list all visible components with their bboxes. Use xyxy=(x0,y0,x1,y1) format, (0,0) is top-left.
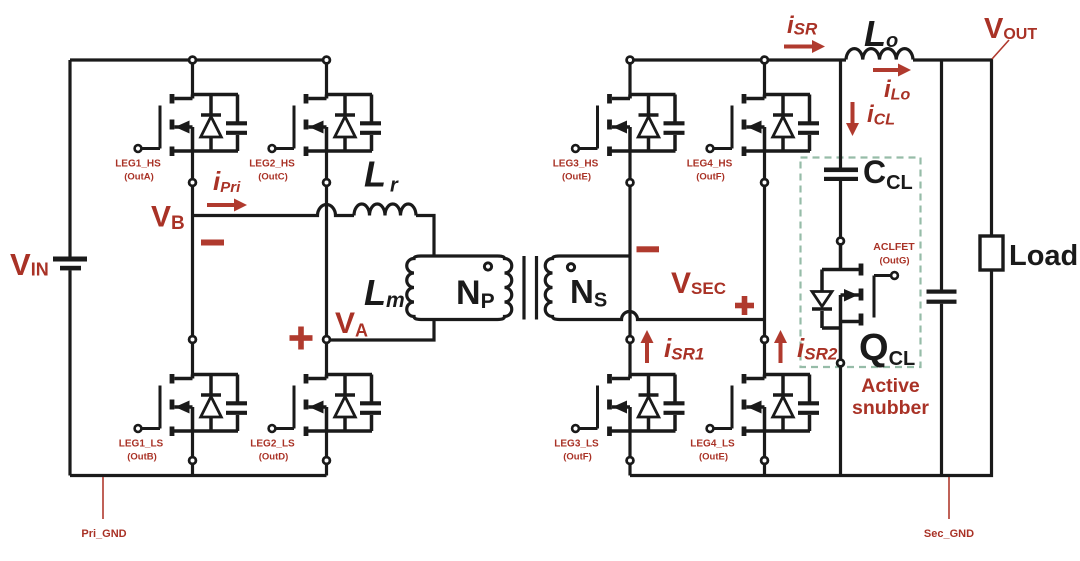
node leg4 top xyxy=(761,57,768,64)
plus sign VSEC xyxy=(735,296,754,315)
transistor QCL (ACLFET) xyxy=(812,241,898,363)
wire: QCL to ground rail xyxy=(839,363,842,476)
inductor Lo xyxy=(846,49,913,60)
transformer secondary winding Ns xyxy=(545,256,764,320)
transistor LEG3_LS (OutF) xyxy=(572,374,684,436)
wire: VB node to Lr (hops over leg2) xyxy=(193,205,355,216)
minus sign VB xyxy=(201,240,224,246)
node leg2 mid xyxy=(323,179,330,186)
svg-text:Lr: Lr xyxy=(364,154,399,197)
wire: left rail upper (Vin to top rail) xyxy=(68,60,71,257)
wire: leg3 vertical xyxy=(628,60,631,476)
current arrow iSR2 xyxy=(774,330,787,363)
active snubber dashed box xyxy=(801,158,921,368)
svg-text:ACLFET: ACLFET xyxy=(873,241,915,253)
svg-text:LEG3_LS: LEG3_LS xyxy=(554,439,599,450)
transistor LEG2_HS (OutC) xyxy=(269,94,381,156)
transistor LEG3_HS (OutE) xyxy=(572,94,684,156)
transistor LEG2_LS (OutD) xyxy=(269,374,381,436)
wire: clamp branch upper xyxy=(839,60,842,168)
capacitor CCL xyxy=(824,168,858,182)
node VB xyxy=(189,179,196,186)
polarity dot Np xyxy=(484,263,491,270)
svg-text:VOUT: VOUT xyxy=(984,13,1037,45)
svg-text:Lo: Lo xyxy=(864,13,898,54)
svg-text:iCL: iCL xyxy=(867,101,895,129)
wire: leg2 vertical xyxy=(325,60,328,476)
wire: primary bottom rail (Pri_GND) xyxy=(70,474,327,477)
plus sign VA xyxy=(290,327,313,350)
current arrow iLo xyxy=(873,64,911,77)
svg-text:(OutC): (OutC) xyxy=(258,172,288,183)
inductor Lr xyxy=(354,204,434,256)
transistor LEG4_LS (OutE) xyxy=(707,374,819,436)
polarity dot Ns xyxy=(567,264,574,271)
svg-text:NS: NS xyxy=(570,273,607,312)
output capacitor xyxy=(927,290,957,304)
svg-text:iPri: iPri xyxy=(213,166,241,196)
node leg2 bottom xyxy=(323,457,330,464)
wire: leg4 vertical xyxy=(763,60,766,476)
svg-text:LEG3_HS: LEG3_HS xyxy=(553,159,599,170)
minus sign VSEC xyxy=(637,246,660,252)
svg-text:LEG4_HS: LEG4_HS xyxy=(687,159,733,170)
current arrow iCL xyxy=(846,102,859,136)
wire: primary top rail xyxy=(70,58,327,61)
node leg1 top xyxy=(189,57,196,64)
svg-text:snubber: snubber xyxy=(852,397,929,419)
wire: Lo to Vout corner xyxy=(913,60,992,236)
node QCL drain xyxy=(837,238,844,245)
wire: secondary top rail xyxy=(630,58,846,61)
svg-text:iSR: iSR xyxy=(787,12,818,39)
svg-text:LEG2_LS: LEG2_LS xyxy=(250,439,295,450)
node QCL source xyxy=(837,360,844,367)
svg-text:(OutG): (OutG) xyxy=(879,256,909,267)
svg-text:VIN: VIN xyxy=(10,247,49,282)
transistor LEG1_LS (OutB) xyxy=(135,374,247,436)
svg-text:(OutE): (OutE) xyxy=(562,172,591,183)
node leg2 top xyxy=(323,57,330,64)
wire: secondary bottom rail (Sec_GND) xyxy=(630,270,992,475)
node SR1 xyxy=(627,336,634,343)
current arrow iSR xyxy=(784,40,825,53)
svg-text:(OutB): (OutB) xyxy=(127,452,157,463)
svg-text:(OutA): (OutA) xyxy=(124,172,154,183)
wire: output capacitor branch xyxy=(940,60,943,476)
Pri_GND lead xyxy=(102,477,104,519)
node leg3 mid xyxy=(627,179,634,186)
transistor LEG4_HS (OutF) xyxy=(707,94,819,156)
node SR2 xyxy=(761,336,768,343)
svg-text:(OutD): (OutD) xyxy=(259,452,289,463)
node leg4 bottom xyxy=(761,457,768,464)
node leg4 mid xyxy=(761,179,768,186)
svg-text:LEG2_HS: LEG2_HS xyxy=(249,159,295,170)
svg-text:Pri_GND: Pri_GND xyxy=(81,528,126,540)
svg-text:(OutF): (OutF) xyxy=(696,172,725,183)
svg-text:(OutE): (OutE) xyxy=(699,452,728,463)
svg-text:VB: VB xyxy=(151,201,185,235)
svg-text:LEG4_LS: LEG4_LS xyxy=(690,439,735,450)
svg-text:(OutF): (OutF) xyxy=(563,452,592,463)
svg-text:VSEC: VSEC xyxy=(671,267,726,300)
svg-text:iLo: iLo xyxy=(884,76,910,104)
svg-text:Active: Active xyxy=(861,375,920,397)
svg-text:NP: NP xyxy=(456,274,495,313)
node leg3 top xyxy=(627,57,634,64)
node leg1 bottom xyxy=(189,457,196,464)
transistor LEG1_HS (OutA) xyxy=(135,94,247,156)
Sec_GND lead xyxy=(948,477,950,519)
svg-text:iSR2: iSR2 xyxy=(797,333,838,364)
svg-text:QCL: QCL xyxy=(859,327,915,370)
resistor Load xyxy=(980,236,1003,270)
transformer primary winding Np / Lm xyxy=(407,256,512,320)
svg-text:LEG1_LS: LEG1_LS xyxy=(119,439,164,450)
wire: leg1 vertical xyxy=(191,60,194,476)
wire: CCL to QCL xyxy=(839,181,842,241)
Vout tick xyxy=(992,40,1009,59)
svg-text:Lm: Lm xyxy=(364,272,405,313)
svg-text:Load: Load xyxy=(1009,240,1078,272)
svg-text:Sec_GND: Sec_GND xyxy=(924,528,974,540)
node leg1 lower xyxy=(189,336,196,343)
svg-text:LEG1_HS: LEG1_HS xyxy=(115,159,161,170)
wire: left rail lower (Vin to ground rail) xyxy=(68,270,71,475)
svg-text:iSR1: iSR1 xyxy=(664,333,704,364)
battery VIN xyxy=(53,257,87,271)
node VA xyxy=(323,336,330,343)
current arrow iSR1 xyxy=(641,330,654,363)
node leg3 bottom xyxy=(627,457,634,464)
current arrow iPri xyxy=(207,199,247,212)
wire: primary winding bottom to VA node xyxy=(327,320,435,341)
transformer core xyxy=(524,256,537,320)
svg-text:CCL: CCL xyxy=(863,154,913,194)
